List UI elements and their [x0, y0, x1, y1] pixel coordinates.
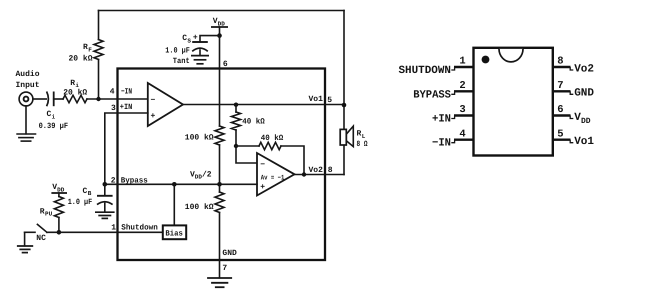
audio input connector J1: [19, 92, 33, 106]
resistor 100k upper: [215, 126, 224, 145]
pin 1 stub: [451, 67, 473, 70]
ground (CB): [95, 203, 115, 218]
ground (pin 7): [207, 278, 232, 287]
wire bypass node down to Bias block: [173, 184, 175, 225]
svg-text:NC: NC: [36, 234, 46, 243]
svg-text:−: −: [151, 96, 156, 105]
pin 6 stub: [553, 116, 574, 119]
svg-text:100 kΩ: 100 kΩ: [185, 203, 214, 212]
svg-text:+: +: [151, 112, 156, 121]
svg-text:4: 4: [110, 88, 115, 97]
wire lower 100k to GND rail: [219, 213, 221, 261]
ground (switch): [17, 232, 33, 252]
svg-text:Vo1: Vo1: [309, 95, 324, 104]
wire speaker branch vertical: [343, 105, 345, 175]
resistor 40k horizontal (feedback): [259, 142, 281, 149]
wire 40k horizontal to Vo2 node: [281, 146, 304, 175]
resistor RPU: [54, 197, 63, 218]
wire upper 100k to bypass rail: [219, 145, 221, 184]
svg-text:GND: GND: [574, 88, 594, 100]
svg-text:/2: /2: [202, 170, 212, 179]
svg-text:2: 2: [459, 80, 465, 92]
node bypass-bias junction: [172, 182, 177, 187]
wire node down to A2 inverting input: [236, 146, 257, 163]
wire VDD down into box (pin 6) to upper divider resistor: [219, 36, 221, 126]
pin 1 dot: [482, 56, 490, 64]
capacitor Ci: [47, 92, 54, 107]
svg-text:Tant: Tant: [173, 57, 190, 66]
svg-text:40 kΩ: 40 kΩ: [261, 134, 284, 143]
wire top feedback rail: [99, 10, 345, 12]
pin 8 stub: [553, 67, 574, 70]
svg-text:+IN: +IN: [120, 103, 133, 112]
node bypass-divider junction: [217, 182, 222, 187]
svg-text:3: 3: [459, 104, 465, 116]
wire Rf bottom lead: [98, 60, 100, 100]
svg-text:0.39 µF: 0.39 µF: [39, 122, 69, 131]
value label Ci: [47, 110, 56, 120]
pin 5 stub: [553, 140, 574, 143]
svg-text:Bypass: Bypass: [121, 177, 148, 186]
wire pin 7 to ground: [219, 260, 221, 278]
svg-text:Audio: Audio: [16, 70, 40, 79]
pin 3 stub: [451, 116, 473, 119]
node A2 output: [302, 172, 306, 176]
svg-text:1: 1: [111, 223, 116, 232]
ground (audio input): [17, 106, 35, 141]
svg-text:−IN: −IN: [121, 88, 132, 97]
pin 2 stub: [451, 91, 473, 94]
wire 40k vertical to node: [235, 130, 237, 146]
svg-text:Vo2: Vo2: [574, 63, 594, 75]
svg-text:8: 8: [557, 56, 563, 68]
node Vo1 at speaker branch: [342, 103, 347, 108]
svg-text:Shutdown: Shutdown: [121, 223, 158, 232]
node 40k junction: [234, 144, 238, 148]
svg-text:20 kΩ: 20 kΩ: [63, 88, 87, 97]
wire shutdown to Bias block (pin 1): [47, 231, 163, 233]
svg-text:+: +: [260, 183, 265, 192]
block Bias: [163, 225, 186, 239]
label RPU: [40, 207, 53, 217]
svg-text:Av = −1: Av = −1: [261, 174, 285, 182]
svg-text:3: 3: [111, 104, 116, 113]
wire +IN from op-amp out of box: [105, 113, 148, 184]
pin label VDD: [574, 112, 591, 126]
wire connector to Ci: [33, 98, 46, 100]
IC outline box: [118, 69, 326, 261]
label Audio Input: [16, 70, 40, 90]
wire node to 40k horizontal: [236, 145, 259, 147]
svg-text:7: 7: [222, 264, 227, 273]
ground (CS): [191, 50, 209, 64]
label Ri: [70, 79, 79, 89]
svg-text:GND: GND: [222, 249, 237, 258]
svg-text:20 kΩ: 20 kΩ: [69, 54, 93, 63]
pin 1 index notch: [499, 49, 523, 62]
node at -IN junction: [96, 97, 100, 101]
pin 4 stub: [451, 140, 473, 143]
svg-text:Vo1: Vo1: [574, 136, 594, 148]
svg-text:5: 5: [557, 128, 563, 140]
capacitor CS (polarized tantalum): [192, 42, 208, 51]
svg-text:i: i: [52, 114, 56, 121]
svg-text:−IN: −IN: [432, 138, 451, 150]
svg-text:6: 6: [223, 60, 228, 69]
svg-text:Vo2: Vo2: [309, 166, 324, 175]
net label VDD/2: [190, 170, 212, 180]
label CS: [182, 34, 191, 44]
svg-text:F: F: [88, 46, 92, 53]
wire RPU to shutdown node: [58, 218, 60, 233]
resistor Rf: [94, 40, 103, 60]
switch NC (shutdown): [25, 224, 47, 232]
pin 7 stub: [553, 91, 574, 94]
svg-text:1.0 µF: 1.0 µF: [165, 47, 190, 56]
svg-text:SHUTDOWN: SHUTDOWN: [399, 65, 452, 77]
wire stub to CS: [200, 36, 220, 42]
svg-text:DD: DD: [581, 117, 591, 126]
wire Vo1: op-amp A1 output to right edge and load: [183, 104, 344, 106]
wire A2 output to Vo2: [295, 174, 345, 176]
power VDD symbol (for RPU): [51, 183, 67, 197]
op-amp A1: [148, 83, 183, 126]
op-amp A2 (Av = -1): [257, 153, 295, 196]
power VDD symbol (top, for CS): [211, 17, 228, 36]
svg-text:2: 2: [111, 176, 116, 185]
resistor 40k vertical: [232, 112, 241, 130]
svg-text:−: −: [260, 161, 265, 170]
svg-text:+IN: +IN: [432, 114, 451, 126]
node bypass / CB: [103, 182, 108, 187]
svg-text:4: 4: [459, 128, 465, 140]
svg-text:PU: PU: [45, 211, 53, 218]
svg-text:8 Ω: 8 Ω: [357, 140, 368, 149]
wire Rf top lead: [98, 11, 100, 40]
svg-text:7: 7: [557, 80, 563, 92]
node VDD / CS junction: [217, 33, 222, 38]
svg-text:Input: Input: [16, 81, 40, 90]
label Rf: [83, 43, 92, 53]
wire right vertical from top rail to Vo1 node: [343, 11, 345, 106]
capacitor CB: [97, 184, 113, 204]
svg-text:BYPASS: BYPASS: [413, 89, 451, 101]
label CB: [83, 187, 92, 197]
wire to 40k vertical: [235, 105, 237, 112]
svg-text:6: 6: [557, 104, 563, 116]
node Vo1 / 40k divider: [234, 103, 238, 107]
svg-text:+: +: [193, 34, 198, 43]
svg-text:1: 1: [459, 56, 465, 68]
speaker RL: [340, 126, 353, 147]
svg-text:5: 5: [327, 96, 332, 105]
svg-text:1.0 µF: 1.0 µF: [68, 198, 93, 207]
wire Ri to -IN node and into box to op-amp: [87, 98, 148, 100]
svg-text:L: L: [362, 133, 366, 140]
package body U1: [474, 48, 553, 156]
svg-text:8: 8: [328, 166, 333, 175]
resistor Ri: [63, 95, 87, 102]
bypass rail: pin 3 node to A2 + input: [105, 183, 257, 185]
wire Ci to Ri: [54, 98, 63, 100]
svg-text:S: S: [187, 37, 191, 44]
svg-text:B: B: [88, 190, 92, 197]
svg-text:40 kΩ: 40 kΩ: [242, 117, 265, 126]
node shutdown: [57, 230, 62, 235]
svg-text:100 kΩ: 100 kΩ: [185, 133, 214, 142]
svg-text:Bias: Bias: [165, 230, 183, 239]
resistor 100k lower: [215, 184, 224, 212]
label RL: [357, 130, 366, 140]
